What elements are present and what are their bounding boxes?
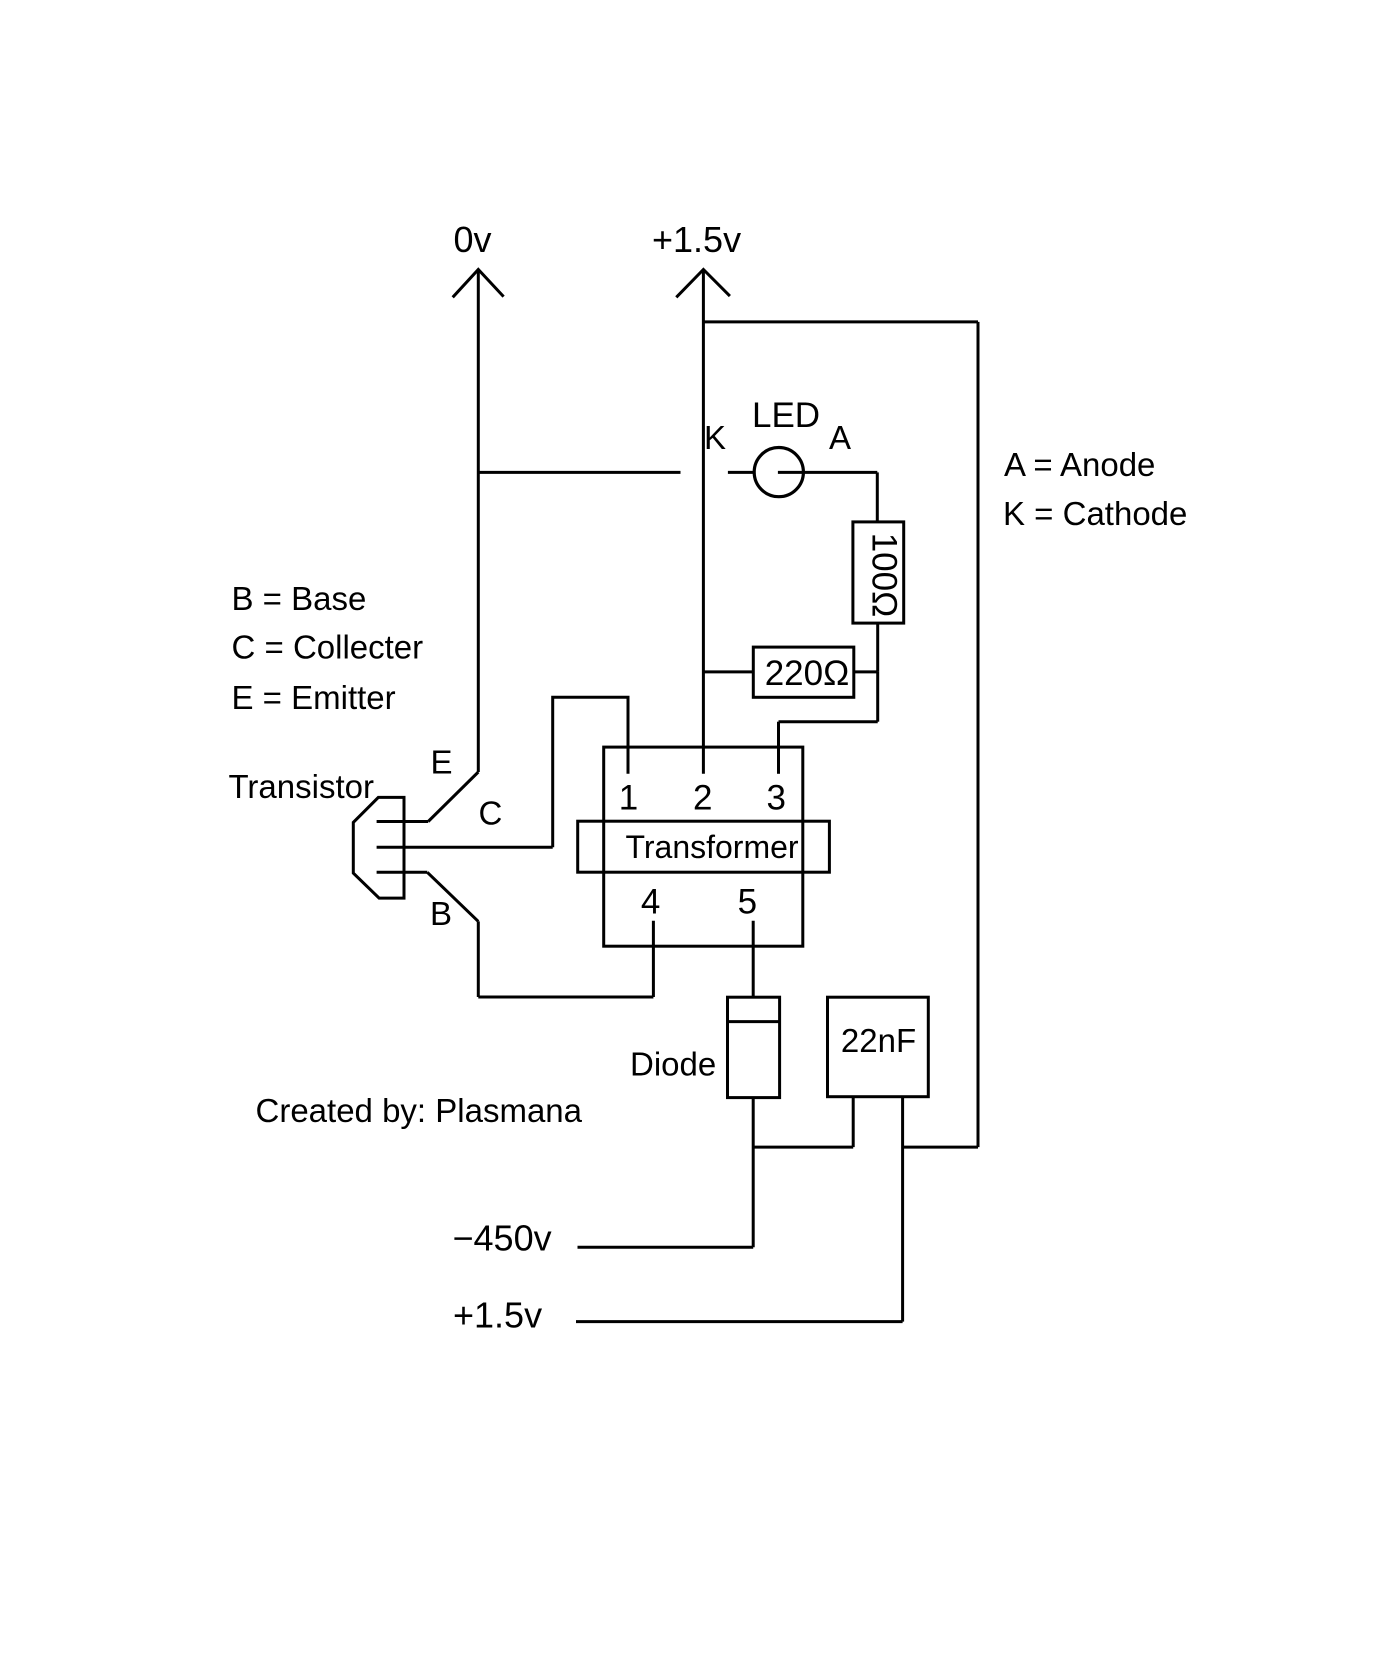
wire 0v vertical rail — [477, 270, 480, 773]
power arrow +1.5v — [676, 270, 730, 298]
wire junction right — [903, 1146, 978, 1149]
svg-text:Diode: Diode — [630, 1046, 716, 1083]
wire to pin 3 — [779, 720, 878, 723]
svg-text:E = Emitter: E = Emitter — [232, 679, 396, 716]
svg-text:B: B — [430, 895, 452, 932]
wire collector riser — [553, 697, 628, 847]
wire emitter diagonal to 0v — [428, 772, 478, 822]
wire +1.5v vertical rail to pin 2 — [702, 270, 705, 774]
wire 220R to node — [854, 670, 878, 673]
wire base down — [477, 921, 480, 997]
capacitor C1 box — [828, 997, 929, 1096]
svg-text:0v: 0v — [454, 219, 492, 260]
svg-text:A = Anode: A = Anode — [1004, 446, 1155, 483]
svg-text:100Ω: 100Ω — [864, 533, 903, 618]
wire rail to 220R — [703, 670, 753, 673]
wire +1.5v bottom — [576, 1320, 903, 1323]
wire top rail — [703, 320, 978, 323]
wire base to pin 4 — [478, 996, 653, 999]
svg-text:22nF: 22nF — [841, 1022, 916, 1059]
svg-text:B = Base: B = Base — [232, 580, 367, 617]
wire right rail — [977, 322, 980, 1147]
transistor pin E — [377, 820, 429, 823]
transformer label box — [578, 821, 830, 872]
wire junction left — [753, 1146, 853, 1149]
diode D1 body — [728, 997, 780, 1097]
svg-text:+1.5v: +1.5v — [453, 1295, 542, 1336]
wire LED cathode stub — [728, 471, 753, 474]
wire base diagonal — [427, 872, 478, 921]
svg-text:K = Cathode: K = Cathode — [1003, 495, 1187, 532]
svg-text:LED: LED — [752, 396, 820, 435]
wire diode to -450v — [752, 1097, 755, 1247]
svg-text:Created by: Plasmana: Created by: Plasmana — [256, 1092, 583, 1129]
svg-text:C = Collecter: C = Collecter — [232, 629, 424, 666]
power arrow 0v — [453, 270, 504, 298]
transistor pin B — [377, 871, 428, 874]
transistor Q1 package — [353, 797, 404, 898]
svg-text:−450v: −450v — [453, 1218, 552, 1259]
transformer pin 4 stub — [652, 921, 655, 997]
capacitor left stub — [852, 1097, 855, 1147]
LED lamp circle — [754, 448, 803, 497]
transistor pin C wire to riser — [377, 846, 553, 849]
svg-text:Transformer: Transformer — [626, 829, 799, 865]
svg-text:Transistor: Transistor — [229, 768, 374, 805]
svg-text:A: A — [829, 419, 851, 456]
wire 0v to LED cathode — [478, 471, 680, 474]
capacitor right stub — [901, 1097, 904, 1321]
svg-text:C: C — [479, 795, 503, 832]
svg-text:+1.5v: +1.5v — [652, 219, 741, 260]
wire LED anode — [778, 471, 877, 474]
svg-text:5: 5 — [738, 883, 757, 922]
svg-text:2: 2 — [693, 779, 712, 818]
resistor 100R box — [853, 522, 904, 623]
resistor 220R box — [753, 647, 854, 697]
wire pin 3 stub — [777, 722, 780, 774]
diode cathode band — [728, 1020, 780, 1023]
transformer T1 body — [604, 747, 803, 946]
wire resistor 100R to node — [876, 623, 879, 672]
svg-text:K: K — [704, 419, 726, 456]
wire anode down to resistor — [876, 472, 879, 522]
wire node down — [876, 672, 879, 722]
svg-text:E: E — [431, 744, 453, 781]
wire -450v — [578, 1246, 754, 1249]
svg-text:220Ω: 220Ω — [765, 654, 850, 693]
svg-text:1: 1 — [619, 779, 638, 818]
svg-text:4: 4 — [641, 883, 660, 922]
svg-text:3: 3 — [766, 779, 785, 818]
transformer pin 5 stub — [752, 921, 755, 998]
